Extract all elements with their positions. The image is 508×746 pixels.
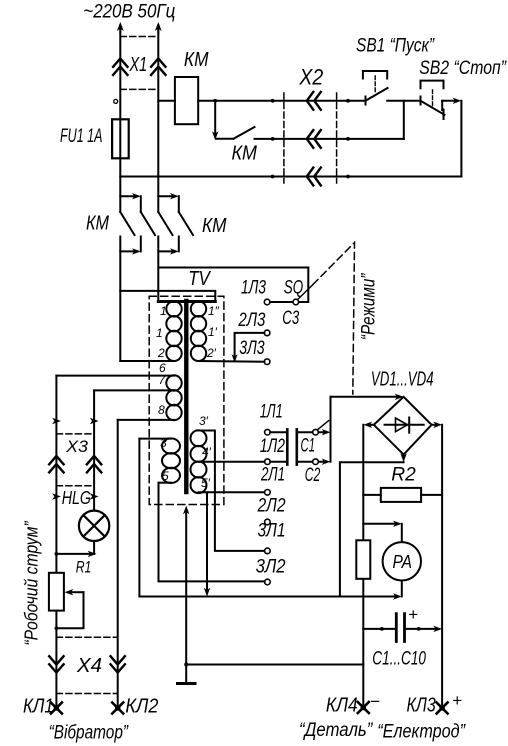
X4 chevrons right pointing down [111,656,125,672]
junction dots wire1 X2 [271,99,275,103]
svg-text:1″: 1″ [208,304,220,318]
R2 wires [363,494,442,496]
svg-text:КЛ4: КЛ4 [326,695,358,717]
bridge right wire arrow [432,424,438,426]
tap7 HLG branch down [93,390,95,510]
connector X2 dashed lines [284,93,337,183]
wire L2 phase down [157,30,159,212]
svg-text:R2: R2 [391,464,416,486]
supply arrow right [157,25,159,33]
fuse FU1 rect [112,119,129,158]
drop from 5' wire with arrow to tap3 wire [206,492,208,591]
shunt resistor [356,540,370,579]
tap 5' wire to 2Л1 [199,491,265,493]
svg-text:2′: 2′ [206,346,217,360]
svg-text:−: − [370,692,380,711]
pole1 bottom reconnect [120,250,136,252]
svg-text:1Л3: 1Л3 [241,277,266,299]
SB2 blade NC [421,101,445,115]
ground to КЛ4 wire [186,664,363,666]
wire L2 below contact to transformer bus [157,237,159,302]
pole2 branch blade [179,212,193,235]
arrows at HLG level [52,493,61,499]
svg-text:2Л1: 2Л1 [260,464,285,486]
X3 junction arrows [52,418,61,424]
vertical C-block to bridge top [330,397,332,462]
wire L1 phase down to fuse and contact [119,30,121,212]
junction dot coil output [213,99,217,103]
connector X4 dashed lines [56,637,117,693]
pole1 branch upper stub [140,196,142,212]
winding W2 mid-left beads [166,375,181,390]
wire1 control: L2 to coil [158,100,175,102]
SQ linkage solid [298,285,313,300]
svg-text:2Л2: 2Л2 [257,495,286,517]
supply arrow left [119,25,121,33]
left DC rail [362,425,364,541]
transformer core [184,301,188,492]
wire 2Л3 [235,333,265,361]
svg-text:“Електрод”: “Електрод” [377,721,466,743]
svg-text:1Л2: 1Л2 [260,435,285,457]
svg-text:HLG: HLG [62,487,91,508]
lamp HLG circle [79,511,109,541]
SB2 actuator [432,90,434,106]
contactor coil KM [175,77,198,124]
svg-text:С3: С3 [282,307,299,329]
pole1 branch lower stub [140,237,142,252]
svg-text:VD1...VD4: VD1...VD4 [371,368,434,390]
primary top bus [158,300,215,303]
svg-text:1′: 1′ [208,325,218,339]
svg-text:КМ: КМ [232,142,258,165]
svg-text:“Робочий струм”: “Робочий струм” [22,521,42,646]
capacitor bank plates [396,614,404,642]
terminal circle 3Л3 [264,359,270,365]
primary top feed from L1 [120,291,215,302]
svg-text:5′: 5′ [201,476,211,490]
tap 8 wire [118,419,174,421]
tap 7 wire [94,389,174,391]
svg-text:~220В 50Гц: ~220В 50Гц [83,2,175,23]
X4 chevrons left pointing down [49,656,63,672]
aux contact horizontal stub [216,138,234,140]
wire tap8 down to КЛ2 [117,420,119,708]
bridge diode symbol [385,424,424,426]
svg-text:“Деталь”: “Деталь” [299,719,374,741]
connector X1 chevrons right [151,59,165,75]
connector X3 dashed lines [56,434,94,486]
svg-text:С1: С1 [301,435,316,457]
svg-text:КМ: КМ [86,212,110,235]
SB1 blade [366,88,388,101]
svg-text:“Вібратор”: “Вібратор” [49,722,130,744]
PA top wire with arrow [363,523,397,525]
winding top tap wire at 361 left [120,360,174,362]
winding W3 lower-left beads [162,438,180,453]
lamp bottom wire to main [56,553,89,555]
svg-text:С2: С2 [305,464,321,486]
svg-text:КЛ2: КЛ2 [125,696,158,718]
SB1 actuator [374,76,376,93]
wire L1 blade KM pole1 [120,212,134,235]
pole2 branch upper stub [178,196,180,212]
aux contact branch vertical with arrow [214,101,216,135]
right corner vertical SB2 to bus [460,101,462,177]
resistor R2 [381,488,421,502]
small circle mark on L1 [114,99,118,103]
svg-text:3Л3: 3Л3 [239,337,264,359]
transformer dashed screen box [149,296,224,504]
row2 wires C2 [270,461,326,463]
capacitors C1 C2 plates [287,429,297,464]
row1 wires C1 [270,431,326,433]
terminal КЛ1 x-mark [51,703,62,714]
svg-text:1Л1: 1Л1 [260,401,283,423]
svg-text:1: 1 [160,304,167,318]
ground junction dot [184,663,188,667]
X2 chevrons wire1 [307,92,321,110]
svg-text:FU1 1A: FU1 1A [60,126,103,147]
tap 3' wire up-right and down to 3Л1 [199,431,265,551]
bridge bottom arrow down [403,455,405,458]
left branch verticals: tap6 line down [55,376,57,708]
svg-text:R1: R1 [76,559,92,577]
rheostat R1 [49,573,64,611]
wire2: aux contact to SB1/SB2 junction [255,138,404,140]
connector X1 chevrons left [113,59,127,75]
svg-text:2: 2 [157,346,165,360]
svg-text:SB1 “Пуск”: SB1 “Пуск” [356,35,435,57]
pole1 branch blade [141,212,155,235]
tap 5 wire [159,482,172,484]
tap 6 wire [56,375,174,377]
bottom control bus wire3 [120,176,461,178]
svg-text:3′: 3′ [199,414,209,428]
bridge left wire arrow [368,424,374,426]
R1 wiper arrow [70,591,84,593]
winding W3' lower-right beads [191,430,207,446]
linkage dashed Режими pointer [313,243,355,395]
PA bottom wire [401,581,403,597]
wire SB2 out to corner with arrow [442,100,456,102]
wire tap5 to 3Л2 [159,483,265,582]
bridge bottom wire left and down [340,462,404,596]
svg-text:Х2: Х2 [299,64,324,89]
SB2 contact tick left [420,97,422,105]
svg-text:1: 1 [156,326,163,340]
pole2 bottom reconnect [158,250,174,252]
ammeter PA circle [383,542,421,580]
bridge top feed wire [331,396,399,398]
wire SQ feed from L2 [158,267,308,269]
svg-text:3Л1: 3Л1 [258,520,286,542]
wire SB1 to SB2 [387,100,420,102]
SQ terminal circle right [293,299,299,305]
ground bar [178,682,196,685]
svg-text:+: + [452,691,462,710]
svg-text:+: + [408,605,418,624]
KM main contacts: pole2 branch top horizontal [158,195,174,197]
svg-text:3Л2: 3Л2 [256,556,286,578]
svg-text:SB2 “Стоп”: SB2 “Стоп” [419,57,507,79]
aux contact KM blade [234,127,255,139]
SB2 anvil tick [443,110,445,120]
pole2 branch lower stub [178,237,180,252]
wire L1 below contact down to tap2 corner [119,237,121,361]
svg-text:“Режими”: “Режими” [359,272,380,340]
tap 4' wire to 1Л2 [200,461,265,463]
lamp bottom [93,541,95,554]
junction vertical SB1-SB2 to wire2 [403,101,405,139]
tap 3 wire [139,438,171,440]
SB2 right lead [441,101,443,110]
X3 chevrons left [49,456,63,472]
SQ blade closed [270,301,293,303]
svg-text:Х3: Х3 [65,438,89,456]
wire tap3 down and right long [139,439,397,597]
svg-text:КМ: КМ [202,214,227,237]
winding W1' upper-right beads [191,301,206,316]
svg-text:С1...С10: С1...С10 [372,649,426,670]
svg-text:КЛ1: КЛ1 [23,696,54,718]
X2 chevrons wire2 [307,130,321,148]
terminal КЛ4 x-mark [358,702,369,713]
screen ground wire from box [185,511,187,684]
svg-text:КМ: КМ [184,48,209,71]
svg-text:РА: РА [393,551,413,572]
capacitor bank wires [363,628,437,630]
connector X1 dashed box [120,37,158,90]
terminal circle 2Л3 [264,330,270,336]
SB1 contact tick [365,97,367,105]
terminal КЛ2 x-mark [112,703,123,714]
svg-text:TV: TV [188,268,211,290]
winding W1 upper-left beads [166,301,181,316]
KM main contacts: pole1 branch top horizontal [120,195,136,197]
svg-text:2Л3: 2Л3 [238,309,266,331]
X3 chevrons right [87,456,101,472]
svg-text:SQ: SQ [284,277,304,299]
svg-text:Х4: Х4 [76,655,102,677]
SQ terminal circle left 1Л3 [264,299,270,305]
terminal КЛ3 x-mark [437,703,448,714]
svg-text:4′: 4′ [202,445,212,459]
bridge VD1..VD4 diamond [374,397,432,455]
svg-text:3: 3 [160,436,167,450]
right DC rail [441,425,443,708]
wire1 control: coil to SB1 [198,100,365,102]
wire L2 blade KM pole2 [158,212,172,235]
svg-text:КЛ3: КЛ3 [407,695,436,717]
svg-text:Х1: Х1 [129,54,147,76]
svg-text:5: 5 [162,469,169,483]
svg-text:8: 8 [158,403,165,417]
winding tap wire 2' to 3Л3 [199,360,265,363]
X2 chevrons wire3 [307,168,321,186]
